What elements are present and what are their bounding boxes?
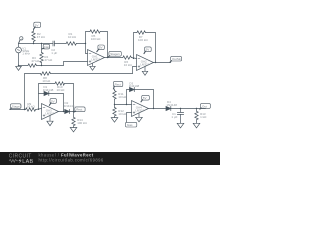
net tag OA2 output — [170, 56, 182, 62]
footer attribution text — [39, 152, 104, 162]
voltage source V1 — [16, 44, 22, 66]
diode D1 branch wire — [39, 93, 45, 95]
label R2 — [37, 32, 46, 39]
ground OA4 power — [136, 113, 143, 122]
label R6 — [124, 60, 133, 67]
junction — [133, 58, 134, 59]
ground R14 — [70, 128, 77, 132]
label R4 — [44, 55, 53, 62]
svg-text:1N4148: 1N4148 — [43, 88, 54, 92]
feedback OA3 left vertical — [39, 84, 56, 110]
junction V1 bottom — [18, 65, 19, 66]
lower rail wire — [19, 65, 29, 67]
label R13 — [200, 112, 207, 119]
ground OA3 power — [47, 116, 53, 126]
svg-text:1 kΩ: 1 kΩ — [200, 115, 207, 119]
label C2 — [51, 48, 57, 55]
wire to OA2 inverting — [131, 58, 136, 59]
label OA1 — [91, 55, 101, 62]
rail corner down to bottom stage — [25, 74, 41, 110]
OA4 plus input wire — [127, 113, 132, 123]
feedback OA2 right vertical — [145, 33, 155, 63]
label R9 — [27, 102, 36, 109]
net tag OA2 power — [144, 47, 151, 54]
svg-text:10 kΩ: 10 kΩ — [57, 88, 66, 92]
label D4 — [166, 100, 177, 107]
op-amp OA2 — [137, 55, 154, 71]
svg-text:47 kΩ: 47 kΩ — [44, 58, 53, 62]
diode D4 — [166, 106, 171, 110]
label OA4 — [135, 106, 145, 113]
net tag final output — [200, 104, 211, 110]
label R5 — [91, 34, 101, 41]
junction OA3 feedback — [38, 109, 39, 110]
resistor R6 inline — [123, 56, 131, 59]
junction R13 branch — [196, 108, 197, 109]
junction R4 bottom — [41, 65, 42, 66]
junction rail bottom — [24, 109, 25, 110]
ground OA1 power — [90, 63, 95, 70]
label R11 — [118, 92, 127, 99]
svg-text:100 kΩ: 100 kΩ — [77, 121, 87, 125]
feedback wire OA1 right vertical — [100, 32, 107, 58]
svg-text:LM324: LM324 — [135, 109, 145, 113]
svg-text:100 kΩ: 100 kΩ — [91, 37, 101, 41]
resistor R1 — [66, 42, 76, 45]
resistor R7 feedback OA2 — [137, 31, 145, 34]
net tag OA4 power — [141, 95, 149, 101]
label R1 — [68, 32, 77, 39]
resistor R3 horizontal on lower rail — [28, 64, 37, 67]
label OA2 — [140, 60, 150, 67]
label V1 values — [22, 47, 30, 56]
svg-text:10 kΩ: 10 kΩ — [27, 105, 36, 109]
wire after D4 — [171, 108, 206, 110]
svg-text:http://circuitlab.com/c/69896: http://circuitlab.com/c/69896 — [39, 157, 104, 162]
wire bottom minus rail — [10, 109, 26, 111]
label D1 — [43, 85, 54, 92]
svg-text:100 kΩ: 100 kΩ — [138, 38, 148, 42]
svg-text:5V: 5V — [99, 46, 103, 50]
svg-text:5V: 5V — [51, 99, 55, 103]
output wire OA4 — [149, 108, 167, 110]
net tag OA1 power — [97, 45, 105, 52]
resistor R13 output — [195, 109, 198, 124]
feedback wire OA1 left vertical — [86, 32, 91, 44]
svg-text:1 μF: 1 μF — [51, 51, 57, 55]
junction OA4 out feedback — [153, 108, 154, 109]
diode D3 — [130, 87, 135, 91]
svg-text:1 kHz: 1 kHz — [22, 51, 30, 55]
svg-text:47 kΩ: 47 kΩ — [37, 35, 46, 39]
label D2 — [64, 101, 75, 108]
svg-text:10 kΩ: 10 kΩ — [118, 112, 127, 116]
diode D2 — [65, 109, 70, 113]
op-amp OA3 — [42, 104, 59, 120]
label R8 — [42, 76, 51, 83]
net tag Stage1 — [108, 51, 122, 57]
resistor R10 feedback — [55, 82, 65, 85]
svg-text:10 kΩ: 10 kΩ — [42, 79, 51, 83]
net tag divider top — [113, 81, 122, 89]
junction cap branch — [180, 108, 181, 109]
wire after D2 — [70, 111, 75, 113]
junction — [126, 104, 127, 105]
output wire OA1 — [105, 57, 123, 59]
output wire OA3 — [59, 111, 65, 113]
ground R13 — [193, 123, 200, 128]
net tag rect output — [74, 107, 85, 112]
diode D1 — [44, 91, 49, 95]
middle signal rail — [51, 73, 133, 75]
resistor R5 feedback OA1 — [90, 30, 100, 33]
svg-text:LM324: LM324 — [91, 58, 101, 62]
capacitor C1 — [177, 109, 183, 124]
feedback OA2 left vertical — [134, 33, 138, 59]
svg-text:5V: 5V — [146, 48, 150, 52]
resistor R11 divider top — [113, 89, 116, 105]
ground C1 — [177, 123, 184, 128]
D1 cathode wire down to output — [49, 94, 64, 112]
wire lower rail to OA1 plus — [37, 62, 88, 66]
svg-text:Rect: Rect — [76, 108, 82, 112]
net tag at bias node — [42, 44, 50, 49]
svg-text:10 kΩ: 10 kΩ — [118, 95, 127, 99]
output wire OA2 — [154, 62, 171, 64]
junction divider mid — [114, 104, 115, 105]
wire — [54, 43, 66, 45]
resistor R14 to ground at rect node — [72, 112, 75, 128]
svg-text:bias: bias — [44, 45, 50, 49]
svg-text:47 kΩ: 47 kΩ — [31, 59, 40, 63]
svg-text:bias: bias — [127, 123, 133, 127]
net tag OA4 plus — [125, 122, 136, 127]
junction post-diode — [73, 111, 74, 112]
svg-text:1 μF: 1 μF — [171, 115, 177, 119]
wire main top rail — [19, 43, 53, 45]
label OA3 — [45, 109, 55, 116]
svg-text:Out: Out — [202, 104, 207, 108]
net tag bottom input — [10, 104, 22, 110]
svg-text:LM324: LM324 — [140, 63, 150, 67]
ground OA2 power — [142, 67, 147, 76]
CircuitLab logo — [9, 154, 34, 165]
net tag OA3 power — [49, 99, 56, 106]
svg-text:5V: 5V — [143, 96, 147, 100]
svg-text:1N4148: 1N4148 — [129, 84, 140, 88]
net tag above R2 — [34, 22, 41, 29]
ground below V1 — [16, 66, 22, 70]
junction feedback left — [85, 43, 86, 44]
capacitor C2 — [53, 41, 54, 46]
svg-text:LM324: LM324 — [45, 112, 55, 116]
label R10 — [57, 85, 66, 92]
wire to feedback node — [76, 43, 85, 45]
svg-text:Stage1: Stage1 — [110, 52, 120, 56]
svg-text:10 kΩ: 10 kΩ — [124, 63, 133, 67]
junction OA2 output — [155, 62, 156, 63]
resistor R8 inline on rail — [41, 72, 51, 75]
feedback OA4 left vertical — [127, 90, 130, 105]
junction R4 top — [41, 43, 42, 44]
resistor R2 vertical — [32, 29, 35, 44]
wire divider to OA4 inverting — [115, 104, 132, 106]
wire down to inverting input OA1 — [86, 44, 88, 54]
resistor R4 vertical — [40, 44, 43, 66]
label R3 — [31, 56, 40, 63]
junction OA1 output — [107, 57, 108, 58]
junction D1 node — [63, 111, 64, 112]
junction R2/main — [33, 43, 34, 44]
op-amp OA4 — [132, 101, 149, 117]
resistor R12 divider bottom — [113, 105, 116, 118]
svg-text:LAB: LAB — [22, 159, 33, 165]
label D3 — [129, 81, 140, 88]
svg-text:Rect: Rect — [115, 82, 121, 86]
op-amp OA1 — [88, 50, 105, 66]
ground divider — [111, 118, 118, 123]
label R12 — [118, 109, 127, 116]
svg-text:1N4148: 1N4148 — [64, 104, 75, 108]
svg-text:10 kΩ: 10 kΩ — [68, 35, 77, 39]
OA2 plus input wire — [133, 67, 137, 74]
svg-text:OutSin: OutSin — [172, 57, 182, 61]
label R14 — [77, 118, 87, 125]
label R7 — [138, 35, 148, 42]
svg-text:5V: 5V — [35, 23, 39, 27]
feedback right vertical to post-diode node — [65, 84, 74, 112]
svg-text:1N4148: 1N4148 — [166, 103, 177, 107]
feedback OA4 right vertical — [134, 90, 153, 109]
resistor R9 inline — [26, 108, 36, 111]
svg-text:Stage1: Stage1 — [12, 104, 22, 108]
footer bar — [0, 152, 220, 165]
wire to OA3 inverting — [36, 109, 42, 110]
label C1 — [171, 112, 177, 119]
node flag at V1 top — [19, 37, 23, 44]
